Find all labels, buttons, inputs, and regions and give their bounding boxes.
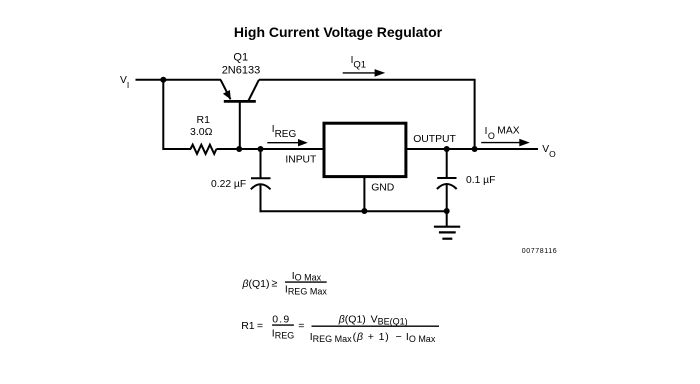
resistor R1 [191, 145, 217, 154]
svg-text:3.0Ω: 3.0Ω [190, 126, 213, 138]
formula 1: beta(Q1) >= IO Max / IREG Max [242, 270, 328, 297]
svg-text:IO Max: IO Max [292, 270, 322, 283]
svg-text:R1: R1 [197, 114, 211, 126]
svg-text:IO: IO [485, 126, 495, 141]
regulator U1 box [324, 123, 406, 176]
svg-text:INPUT: INPUT [285, 154, 317, 165]
wire top rail right [259, 79, 476, 81]
svg-text:β(Q1): β(Q1) [242, 278, 270, 290]
wire right drop [474, 80, 476, 150]
svg-text:0.22 µF: 0.22 µF [211, 179, 246, 190]
svg-text:VO: VO [542, 144, 556, 159]
current arrow IO MAX [481, 125, 530, 146]
svg-text:VI: VI [120, 75, 129, 90]
wire left drop [162, 80, 164, 150]
svg-text:OUTPUT: OUTPUT [413, 134, 456, 145]
formula 2: R1 = 0.9/IREG = beta(Q1) VBE(Q1) / (IREG Max (beta+1) - IO Max) [241, 313, 439, 344]
svg-text:MAX: MAX [497, 125, 519, 136]
svg-text:VBE(Q1): VBE(Q1) [371, 314, 408, 327]
wire bottom rail from left drop [163, 148, 191, 150]
svg-text:0.9: 0.9 [272, 313, 290, 325]
capacitor C2 0.1uF [437, 149, 457, 211]
svg-text:IO Max: IO Max [406, 331, 436, 344]
svg-text:IREG: IREG [272, 328, 294, 341]
svg-text:2N6133: 2N6133 [222, 65, 261, 77]
svg-text:00778116: 00778116 [522, 248, 557, 255]
svg-text:High Current Voltage Regulator: High Current Voltage Regulator [234, 24, 443, 40]
wire ground rail [260, 210, 447, 212]
junction collector return node [472, 146, 478, 152]
svg-text:−: − [396, 331, 402, 343]
current arrow IQ1 [343, 55, 386, 77]
svg-text:IREG: IREG [272, 124, 297, 140]
junction cap C1 node [258, 146, 264, 152]
svg-text:=: = [298, 320, 304, 332]
junction VI node [160, 77, 166, 83]
wire top rail left [163, 79, 221, 81]
svg-text:IQ1: IQ1 [351, 55, 366, 71]
svg-text:R1: R1 [241, 320, 255, 332]
svg-text:β(Q1): β(Q1) [338, 314, 366, 326]
svg-text:Q1: Q1 [233, 52, 248, 64]
svg-text:IREG Max: IREG Max [310, 331, 352, 344]
current arrow IREG [267, 124, 308, 146]
svg-text:=: = [257, 320, 263, 332]
junction base node [236, 146, 242, 152]
wire output rail [405, 148, 538, 150]
junction GND node [361, 208, 367, 214]
transistor Q1 [221, 80, 259, 149]
svg-text:≥: ≥ [272, 278, 278, 290]
wire resistor to regulator input [216, 148, 324, 150]
svg-text:IREG Max: IREG Max [285, 284, 327, 297]
junction ground rail right node [444, 208, 450, 214]
capacitor C1 0.22uF [251, 149, 271, 212]
ground symbol [434, 211, 460, 239]
svg-text:(β + 1): (β + 1) [353, 331, 390, 343]
svg-text:0.1 µF: 0.1 µF [466, 175, 495, 186]
junction C2 node [444, 146, 450, 152]
svg-text:GND: GND [371, 183, 394, 194]
wire GND lead [363, 177, 365, 211]
wire VI lead [136, 79, 165, 81]
